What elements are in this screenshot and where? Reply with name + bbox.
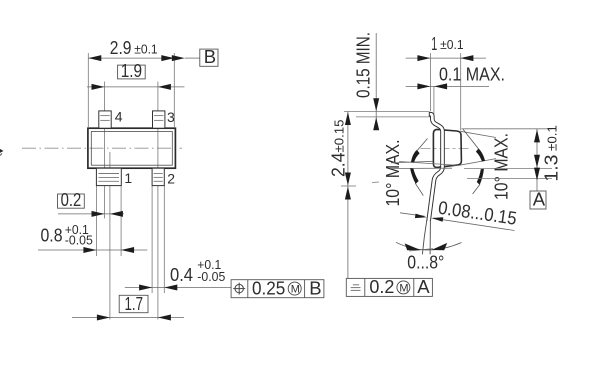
dimension 0.8 +0.1/-0.05	[38, 222, 147, 253]
svg-text:M: M	[291, 284, 300, 296]
dimension 0.15 MIN. (vertical)	[353, 32, 380, 130]
lead top extension line (upper)	[344, 111, 430, 113]
extension line pin2 lead left (0.4)	[151, 186, 153, 293]
svg-text:1.3: 1.3	[541, 155, 562, 182]
10deg MAX. left annotation	[372, 139, 459, 207]
pin 1 pad (wide)	[96, 168, 121, 185]
svg-text:1.9: 1.9	[121, 60, 142, 81]
dimension 2.4 +-0.15 (vertical)	[328, 112, 357, 279]
svg-text:2: 2	[167, 170, 175, 186]
extension line pin4 centerline (1.9 left, 0.2 left)	[104, 82, 106, 219]
extension line 0.1 max right	[433, 86, 435, 116]
centerline through side body	[421, 148, 471, 150]
extension line body left edge (2.9)	[87, 53, 89, 127]
lead end cap top	[428, 112, 430, 116]
svg-text:0.8: 0.8	[41, 225, 63, 246]
extension line pin3/pin2 centerline (1.9 right, 1.7 right)	[157, 82, 159, 320]
side body outline	[433, 129, 461, 167]
extension line lead bend bottom	[467, 178, 552, 180]
dimension 1.9 (boxed)	[87, 60, 185, 90]
extension line pin1 pad right (0.8)	[120, 186, 122, 256]
dimension 2.9 +-0.1	[88, 37, 174, 61]
extension line for 1 dim left	[430, 53, 432, 111]
svg-text:0.1 MAX.: 0.1 MAX.	[439, 64, 505, 85]
partial clipped symbol at left margin	[0, 147, 4, 159]
centerline through body	[22, 147, 182, 149]
svg-text:0.2: 0.2	[369, 276, 394, 297]
svg-text:M: M	[399, 282, 408, 294]
svg-text:3: 3	[167, 109, 175, 125]
lead foot back edge	[429, 220, 431, 255]
svg-text:0.25: 0.25	[252, 277, 285, 298]
pin 2 pad	[152, 168, 164, 185]
svg-text:0.4: 0.4	[170, 264, 193, 285]
svg-text:10° MAX.: 10° MAX.	[382, 140, 403, 207]
svg-text:B: B	[204, 46, 216, 67]
pin 4 pad	[99, 111, 111, 128]
svg-text:4: 4	[115, 109, 123, 125]
datum B leader and box	[172, 46, 218, 67]
svg-text:±0.15: ±0.15	[332, 120, 347, 153]
svg-text:0...8°: 0...8°	[407, 251, 444, 272]
svg-text:10° MAX.: 10° MAX.	[491, 133, 512, 200]
dimension 1.7 (boxed)	[72, 293, 184, 321]
body outline outer	[88, 128, 175, 168]
svg-text:0.15 MIN.: 0.15 MIN.	[353, 32, 374, 98]
svg-text:1: 1	[431, 33, 437, 54]
svg-text:A: A	[533, 189, 546, 210]
lead top extension line (lower)	[356, 116, 431, 118]
dimension 1 +-0.1	[406, 33, 486, 61]
svg-text:0.2: 0.2	[61, 189, 82, 210]
svg-text:±0.1: ±0.1	[545, 125, 560, 151]
gull-wing lead (white core over dark band)	[422, 112, 442, 254]
svg-text:±0.1: ±0.1	[440, 37, 464, 52]
svg-text:-0.05: -0.05	[197, 269, 225, 284]
seating plane FCF: 0.2 M A	[346, 276, 432, 297]
extension line pin1 pad left (0.8)	[95, 186, 97, 256]
extension line body top right (1.3)	[462, 128, 553, 130]
svg-text:B: B	[309, 277, 321, 298]
dimension 0.2 (boxed)	[58, 189, 125, 217]
extension line pin1 lead centerline (0.2 right, 1.7 left)	[109, 152, 111, 320]
dimension 0.08...0.15 (rotated leader)	[400, 197, 518, 231]
lead foot front edge	[422, 220, 427, 255]
svg-text:±0.1: ±0.1	[134, 41, 158, 56]
extension line pin2 lead right (0.4)	[163, 186, 165, 293]
extension line body right edge (2.9)	[173, 53, 175, 127]
extension line for 1 dim right / body corner	[460, 53, 462, 131]
extension line body bottom right (1.3 / 10deg)	[464, 167, 552, 169]
body outline inner	[91, 132, 172, 166]
svg-text:1.7: 1.7	[125, 293, 144, 314]
dimension 1.3 +-0.1 (vertical)	[534, 125, 562, 191]
pin 3 pad	[153, 111, 165, 128]
dimension 0.4 +0.1/-0.05	[125, 257, 231, 291]
svg-text:1: 1	[124, 170, 132, 186]
svg-text:A: A	[417, 276, 430, 297]
svg-text:-0.05: -0.05	[65, 233, 93, 248]
feature control frame: position 0.25 M B	[231, 277, 324, 298]
10deg MAX. right annotation	[459, 129, 512, 200]
0...8deg annotation at foot	[396, 242, 462, 272]
datum A box	[530, 189, 546, 210]
dimension 0.1 MAX.	[406, 64, 505, 90]
svg-text:2.9: 2.9	[110, 37, 132, 58]
